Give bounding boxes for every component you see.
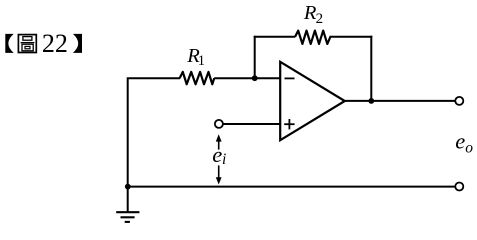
svg-text:1: 1 — [198, 53, 205, 69]
terminal: input open circle — [215, 120, 223, 128]
figure caption bracket 【 — [5, 34, 13, 53]
ground — [116, 212, 139, 222]
node: ground junction on bottom rail — [125, 184, 131, 190]
wire: R1 to op-amp inverting input — [214, 77, 280, 79]
wire: feedback top horizontal left part — [254, 36, 296, 38]
terminal: output open circle bottom — [455, 183, 463, 191]
wire: bottom rail — [128, 186, 455, 188]
node: output junction with feedback — [368, 98, 374, 104]
svg-text:o: o — [465, 139, 473, 156]
resistor R2 — [295, 31, 330, 44]
wire: feedback left vertical up from junction — [254, 36, 256, 78]
figure caption bracket 】 — [73, 34, 82, 53]
svg-text:22: 22 — [42, 29, 68, 58]
arrow up toward input terminal — [216, 134, 222, 149]
svg-text:2: 2 — [316, 11, 324, 27]
svg-text:e: e — [212, 142, 222, 167]
wire: feedback top horizontal right part — [330, 36, 373, 38]
figure caption glyph 圖 — [18, 35, 36, 53]
terminal: output open circle top — [455, 97, 463, 105]
wire: op-amp output to output terminal — [345, 100, 455, 102]
svg-text:e: e — [455, 128, 465, 153]
op-amp U1 — [280, 62, 345, 140]
svg-text:i: i — [222, 151, 226, 168]
node: junction of R1, R2 and inverting input — [252, 75, 258, 81]
arrow down toward bottom rail — [216, 165, 222, 184]
wire: non-inverting input from terminal — [224, 123, 281, 125]
resistor R1 — [180, 72, 215, 84]
wire: feedback right vertical down to output — [370, 36, 372, 101]
wire: ground stub — [127, 187, 129, 213]
op-amp minus sign — [285, 77, 295, 79]
wire: left vertical from R1 line down to bottom rail — [128, 78, 180, 187]
op-amp plus sign — [284, 119, 294, 129]
